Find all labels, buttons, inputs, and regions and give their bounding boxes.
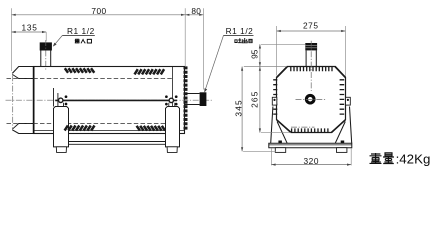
horizontal centerline	[296, 99, 327, 101]
left band bolt ring	[59, 98, 63, 102]
tube row line lower	[7, 123, 173, 125]
head tip centerline	[12, 75, 14, 128]
top fitting cap	[305, 43, 317, 50]
svg-text::42Kg: :42Kg	[396, 152, 431, 167]
dim 80 extension line right	[202, 8, 204, 89]
cylinder body	[34, 67, 185, 134]
outlet nozzle cap R1 1/2	[200, 92, 207, 106]
centerline main	[6, 99, 214, 101]
hidden line lower	[291, 126, 315, 128]
svg-text:135: 135	[21, 23, 37, 33]
dim 135 line	[12, 31, 47, 33]
right band bolt ring	[169, 98, 173, 102]
octagon chamfer emphasis	[277, 67, 346, 133]
svg-text:80: 80	[191, 6, 201, 16]
left clamp bracket	[272, 97, 277, 105]
bottom fins	[292, 128, 328, 132]
center ring	[306, 95, 314, 103]
left band bolts	[65, 95, 68, 98]
dim 275 line	[277, 30, 346, 32]
svg-text:700: 700	[91, 6, 106, 16]
right band bolts	[165, 95, 168, 98]
inlet fitting pipe	[40, 51, 42, 67]
top fitting pipe	[305, 50, 307, 66]
dim 345 line	[241, 67, 243, 152]
base bolt left	[278, 141, 282, 144]
frame bars between legs	[69, 141, 166, 143]
right leg bracket	[169, 103, 175, 107]
front legs	[271, 107, 352, 144]
tie rod	[55, 99, 177, 101]
inlet fitting cap R1 1/2	[40, 42, 52, 50]
svg-text:95: 95	[250, 49, 260, 59]
left leg	[54, 107, 69, 147]
fin column at right end	[184, 68, 188, 128]
hatch group top-right	[135, 69, 165, 74]
dim 320 line	[271, 164, 351, 166]
dim 95 extension lines	[261, 43, 305, 45]
tube row line upper	[7, 78, 173, 80]
note 重量 (weight) glyph art	[370, 153, 395, 164]
base bolt right	[341, 141, 345, 144]
inner bottom line	[34, 130, 185, 132]
dim 700 extension line left	[11, 8, 13, 71]
right foot	[167, 147, 177, 153]
right clamp bracket	[346, 97, 351, 105]
left leg bracket	[54, 88, 64, 107]
leader line outlet	[205, 35, 224, 90]
left side fins	[273, 80, 277, 114]
svg-text:320: 320	[303, 156, 319, 166]
left head (cone end)	[12, 67, 33, 134]
svg-text:275: 275	[303, 21, 319, 31]
svg-text:R1 1/2: R1 1/2	[67, 26, 95, 36]
svg-text:345: 345	[233, 99, 243, 116]
dim 700 line	[12, 14, 186, 16]
top fins	[291, 67, 332, 71]
dim 265 line	[259, 67, 261, 133]
label 導入口 (inlet port) glyph art	[75, 39, 92, 43]
dim 700 extension line right / body end	[184, 8, 186, 66]
right leg	[166, 107, 180, 147]
foot pad right	[337, 148, 347, 153]
svg-text:265: 265	[249, 90, 259, 107]
dim 80 line	[185, 14, 203, 16]
svg-text:R1 1/2: R1 1/2	[226, 26, 254, 36]
inlet centerline	[45, 40, 47, 70]
weld seam right	[172, 67, 174, 134]
foot pad left	[275, 148, 285, 153]
leader line inlet	[54, 35, 63, 45]
weld seam left	[33, 67, 35, 134]
left foot	[56, 147, 66, 153]
hatch group bottom-right	[137, 126, 166, 131]
fitting centerline	[310, 41, 312, 91]
dim 320 extension lines	[270, 149, 272, 166]
octagon body outline	[277, 67, 346, 133]
label 吐出口 (outlet port) glyph art	[235, 38, 252, 43]
dim 275 extension lines	[276, 26, 278, 76]
base plate	[269, 143, 352, 147]
dim 95 line	[259, 44, 261, 66]
hatch group top-left	[65, 68, 95, 73]
outlet nozzle pipe	[185, 94, 200, 105]
hatch group bottom-left	[65, 126, 95, 131]
right side fins	[340, 80, 345, 114]
